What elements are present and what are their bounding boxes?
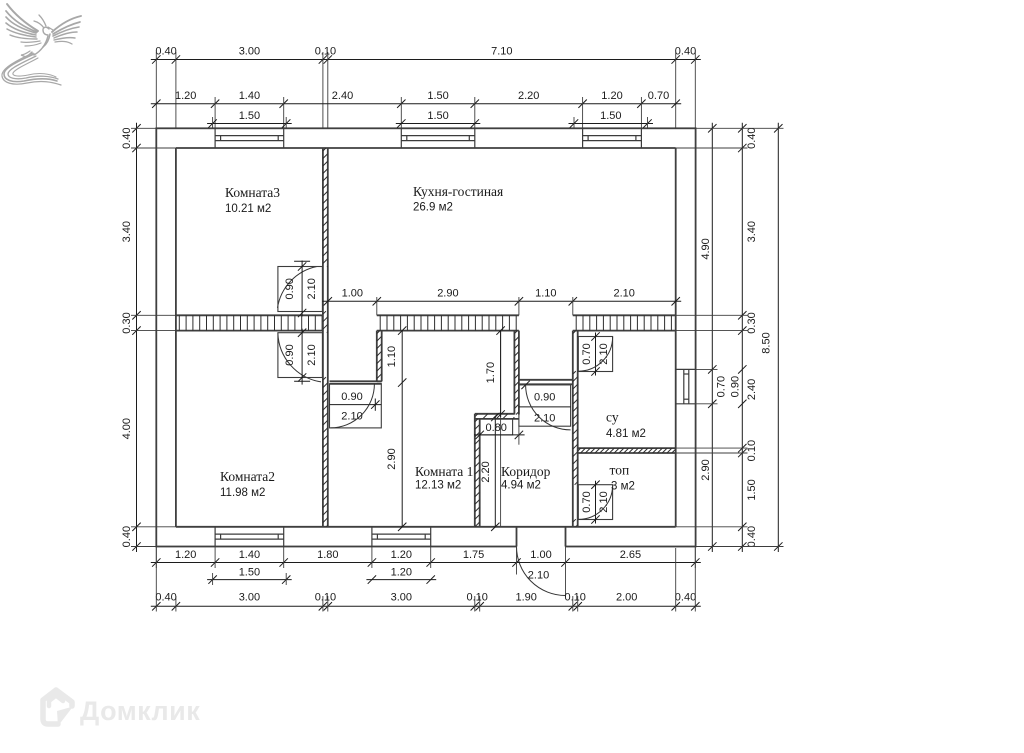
svg-text:1.40: 1.40	[239, 90, 260, 102]
svg-text:0.90: 0.90	[534, 392, 555, 404]
dim extension lines interior band	[377, 297, 573, 315]
logo phoenix	[2, 4, 81, 85]
door D1 room3 (label box 0.90/2.10)	[278, 261, 323, 318]
svg-text:1.00: 1.00	[530, 549, 551, 561]
inner wall top line	[176, 147, 676, 149]
wall E	[475, 414, 480, 527]
label su	[606, 410, 646, 441]
svg-text:2.10: 2.10	[528, 570, 549, 582]
dim chain top windows (1.20 1.40 2.40 1.50 2.20 1.20 0.70)	[151, 90, 681, 108]
window W3 top (kitchen)	[583, 128, 642, 148]
inner wall right line	[675, 148, 677, 527]
door D3 room1 lintel	[330, 381, 382, 384]
label top	[610, 463, 635, 493]
svg-text:0.40: 0.40	[746, 127, 758, 148]
dim chain bottom inner (1.20 1.40 1.80 1.20 1.75 1.00 2.65)	[151, 549, 701, 567]
svg-text:0.10: 0.10	[466, 592, 487, 604]
door D6 su (arc)	[578, 337, 612, 371]
label room3	[225, 185, 280, 215]
svg-text:0.10: 0.10	[315, 592, 336, 604]
dim chain right inner (4.90 0.70 2.90)	[700, 123, 728, 552]
svg-text:2.20: 2.20	[480, 461, 492, 482]
inner wall left line	[175, 148, 177, 527]
svg-text:4.94 м2: 4.94 м2	[501, 480, 541, 492]
label room1	[415, 464, 473, 492]
svg-text:3.00: 3.00	[239, 46, 260, 58]
svg-text:2.10: 2.10	[613, 288, 634, 300]
svg-text:1.20: 1.20	[175, 90, 196, 102]
svg-text:2.20: 2.20	[518, 90, 539, 102]
band wall segment under room3	[176, 315, 323, 330]
door D5 corridor (arc)	[526, 385, 571, 430]
dim chain bottom outer (0.40 3.00 0.10 3.00 0.10 1.90 0.10 2.00 0.40)	[151, 592, 701, 611]
partition A wall	[377, 331, 382, 382]
svg-text:2.40: 2.40	[332, 90, 353, 102]
svg-text:1.90: 1.90	[515, 592, 536, 604]
svg-text:1.50: 1.50	[427, 110, 448, 122]
svg-text:3.00: 3.00	[391, 592, 412, 604]
jog wall between B and E	[475, 414, 519, 419]
svg-text:0.90: 0.90	[284, 278, 296, 299]
wall B	[514, 331, 519, 415]
dim extension lines bottom outer	[156, 547, 695, 612]
svg-text:10.21 м2: 10.21 м2	[225, 203, 271, 215]
dim passage 0.80	[474, 419, 525, 445]
door D1 room3 (arc)	[278, 267, 317, 309]
svg-text:0.10: 0.10	[564, 592, 585, 604]
svg-text:0.40: 0.40	[121, 127, 133, 148]
dim window size 1.50 (W1)	[207, 110, 292, 129]
svg-text:1.00: 1.00	[342, 288, 363, 300]
svg-text:0.70: 0.70	[715, 376, 727, 397]
dim chain right overall (8.50)	[760, 123, 782, 552]
entrance door height label	[528, 570, 549, 582]
door D2 room2 (arc)	[278, 333, 321, 382]
svg-text:0.10: 0.10	[746, 440, 758, 461]
svg-text:0.70: 0.70	[581, 491, 593, 512]
svg-text:1.70: 1.70	[485, 362, 497, 383]
dim chain interior band (1.00 2.90 1.10 2.10)	[322, 288, 681, 306]
svg-text:1.20: 1.20	[391, 549, 412, 561]
main partition wall	[323, 148, 328, 527]
door D6 su (label box 0.70/2.10)	[578, 332, 612, 375]
svg-text:12.13 м2: 12.13 м2	[415, 480, 461, 492]
wall D between su and top	[578, 448, 676, 453]
window W4 bottom (room2)	[215, 527, 284, 547]
label room2	[220, 469, 275, 499]
svg-text:1.50: 1.50	[600, 110, 621, 122]
watermark Domklik	[43, 690, 200, 726]
entrance opening gap	[517, 527, 566, 548]
svg-text:0.90: 0.90	[284, 344, 296, 365]
window W5 bottom (room1)	[372, 527, 431, 547]
svg-text:2.00: 2.00	[616, 592, 637, 604]
wall C	[573, 331, 578, 527]
svg-text:0.30: 0.30	[746, 312, 758, 333]
svg-text:0.40: 0.40	[675, 592, 696, 604]
door D3 room1 (arc)	[330, 384, 374, 428]
band wall segment under kitchen left	[377, 315, 519, 330]
svg-text:Кухня-гостиная: Кухня-гостиная	[413, 184, 503, 199]
svg-text:2.10: 2.10	[306, 278, 318, 299]
svg-text:1.20: 1.20	[175, 549, 196, 561]
svg-text:0.80: 0.80	[485, 422, 506, 434]
dim interior vertical (2.20)	[480, 413, 500, 531]
svg-text:1.20: 1.20	[391, 567, 412, 579]
svg-text:7.10: 7.10	[491, 46, 512, 58]
svg-text:4.81 м2: 4.81 м2	[606, 428, 646, 440]
svg-text:0.40: 0.40	[746, 526, 758, 547]
svg-text:Комната2: Комната2	[220, 469, 275, 484]
svg-text:1.10: 1.10	[535, 288, 556, 300]
svg-text:1.80: 1.80	[317, 549, 338, 561]
entrance door arc	[517, 547, 566, 596]
svg-text:0.90: 0.90	[341, 391, 362, 403]
svg-text:1.50: 1.50	[746, 479, 758, 500]
dim extension lines left	[131, 128, 176, 546]
label corridor	[501, 464, 551, 492]
svg-text:0.40: 0.40	[675, 46, 696, 58]
dim window size 1.50 (W3)	[569, 110, 654, 129]
svg-text:4.90: 4.90	[700, 238, 712, 259]
svg-text:су: су	[606, 410, 619, 425]
svg-text:26.9 м2: 26.9 м2	[413, 202, 453, 214]
svg-text:0.40: 0.40	[155, 592, 176, 604]
door D5 corridor frame	[519, 380, 573, 385]
svg-text:2.65: 2.65	[620, 549, 641, 561]
svg-text:0.90: 0.90	[729, 376, 741, 397]
svg-text:1.50: 1.50	[239, 110, 260, 122]
window W1 top (room3)	[215, 128, 284, 148]
dim window size 1.50 (W4)	[207, 567, 292, 586]
svg-text:0.40: 0.40	[155, 46, 176, 58]
dim window size 1.20 (W5)	[366, 567, 436, 584]
label kitchen	[413, 184, 503, 214]
dim interior vertical (1.10 2.90)	[386, 326, 407, 531]
dim interior vertical (1.70)	[485, 326, 505, 526]
svg-text:3.40: 3.40	[121, 221, 133, 242]
svg-text:0.40: 0.40	[121, 526, 133, 547]
svg-text:2.90: 2.90	[437, 288, 458, 300]
svg-text:1.75: 1.75	[463, 549, 484, 561]
dim window size 1.50 (W2)	[396, 110, 481, 128]
door D2 room2 (label box 0.90/2.10)	[278, 329, 323, 385]
dim chain top outer (0.40 3.00 0.10 7.10 0.40)	[151, 46, 701, 64]
svg-text:4.00: 4.00	[121, 418, 133, 439]
door D7 top (label box 0.70/2.10)	[578, 481, 612, 524]
svg-text:Комната 1: Комната 1	[415, 464, 473, 479]
svg-text:Комната3: Комната3	[225, 185, 280, 200]
svg-text:2.40: 2.40	[746, 379, 758, 400]
window W6 right wall	[676, 369, 696, 403]
svg-text:1.50: 1.50	[427, 90, 448, 102]
svg-text:3.40: 3.40	[746, 221, 758, 242]
svg-text:2.90: 2.90	[386, 448, 398, 469]
door D7 top (arc)	[578, 485, 612, 519]
svg-text:0.70: 0.70	[581, 343, 593, 364]
window W2 top (kitchen)	[401, 128, 475, 148]
svg-text:Домклик: Домклик	[80, 696, 200, 726]
svg-text:0.70: 0.70	[648, 90, 669, 102]
dim extension lines bottom inner	[156, 547, 695, 598]
svg-text:1.20: 1.20	[601, 90, 622, 102]
dim chain left (0.40 3.40 0.30 4.00 0.40)	[121, 123, 141, 552]
svg-text:0.10: 0.10	[315, 46, 336, 58]
dim extension lines top outer	[156, 52, 695, 128]
dim extension lines top windows	[215, 97, 641, 128]
svg-text:3.00: 3.00	[239, 592, 260, 604]
svg-text:2.10: 2.10	[534, 412, 555, 424]
svg-text:2.10: 2.10	[306, 344, 318, 365]
svg-text:1.40: 1.40	[239, 549, 260, 561]
door D5 corridor (label box 0.90/2.10)	[519, 381, 571, 426]
svg-text:2.90: 2.90	[700, 459, 712, 480]
outer wall rectangle	[156, 128, 695, 546]
svg-text:Коридор: Коридор	[501, 464, 551, 479]
svg-text:11.98 м2: 11.98 м2	[220, 487, 265, 499]
inner wall bottom line	[176, 526, 676, 528]
band wall segment under kitchen right	[573, 315, 676, 330]
svg-text:топ: топ	[610, 463, 630, 478]
svg-text:1.10: 1.10	[386, 346, 398, 367]
dim chain right outer (0.40 3.40 0.30 2.40 0.10 1.50 0.40 and 0.90)	[729, 123, 758, 552]
svg-text:3 м2: 3 м2	[611, 481, 635, 493]
door D3 room1 (label box 0.90/2.10)	[330, 384, 382, 428]
svg-text:1.50: 1.50	[239, 567, 260, 579]
dim extension lines right	[676, 128, 784, 546]
svg-text:8.50: 8.50	[760, 332, 772, 353]
